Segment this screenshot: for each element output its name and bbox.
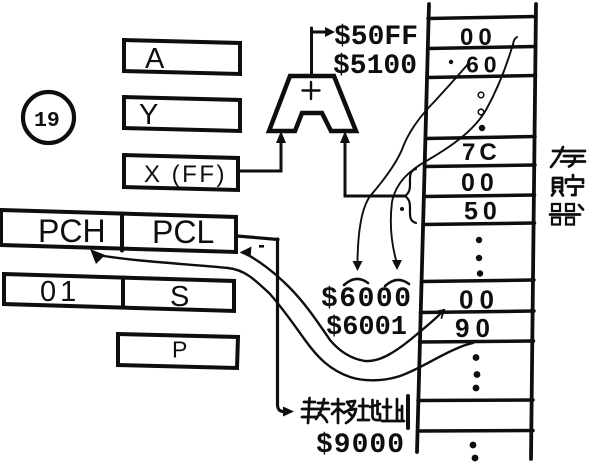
ALU adder symbol bbox=[269, 76, 356, 131]
svg-text:19: 19 bbox=[34, 109, 60, 133]
svg-text:P: P bbox=[172, 337, 187, 363]
curve from memory to $6000 pointer (right arc) bbox=[391, 37, 517, 260]
svg-text:60: 60 bbox=[466, 52, 502, 78]
plus sign inside ALU bbox=[303, 82, 320, 99]
ellipsis dots upper bbox=[478, 92, 484, 98]
svg-text:$6001: $6001 bbox=[326, 313, 407, 343]
register Y box bbox=[124, 97, 240, 131]
svg-text:00: 00 bbox=[459, 285, 500, 315]
svg-text:50: 50 bbox=[464, 198, 502, 226]
wire ALU output up then right bbox=[312, 28, 327, 76]
贮 bbox=[552, 178, 563, 196]
址 bbox=[382, 399, 404, 421]
svg-text:PCH: PCH bbox=[38, 213, 106, 249]
存 bbox=[551, 147, 585, 167]
svg-text:Y: Y bbox=[139, 99, 158, 131]
trailing vertical bar bbox=[406, 396, 410, 428]
ellipsis dots bottom bbox=[470, 442, 477, 449]
circle label 19 bbox=[23, 92, 74, 143]
地 bbox=[358, 399, 380, 420]
arrowhead at PCH bbox=[90, 249, 105, 264]
arrowhead to transfer address label bbox=[283, 407, 294, 417]
register P box bbox=[118, 334, 238, 368]
svg-text:7C: 7C bbox=[462, 139, 501, 166]
brace grouping memory cells bbox=[405, 169, 416, 223]
svg-text:90: 90 bbox=[455, 313, 496, 343]
wire brace to ALU right input bbox=[345, 140, 404, 196]
svg-text:$50FF: $50FF bbox=[334, 22, 418, 53]
noise dot near brace bbox=[400, 207, 404, 211]
label 存贮器 (hand drawn strokes) bbox=[550, 147, 585, 225]
label 转移地址 (hand drawn strokes) bbox=[302, 396, 408, 428]
svg-text:01: 01 bbox=[40, 276, 80, 308]
移 bbox=[332, 399, 356, 423]
ellipsis dots middle bbox=[476, 237, 482, 243]
器 bbox=[552, 204, 574, 211]
register pair PCH/PCL box bbox=[1, 210, 236, 252]
svg-text:A: A bbox=[145, 43, 165, 75]
svg-text:$5100: $5100 bbox=[333, 51, 417, 82]
wire X register to ALU left input bbox=[238, 140, 281, 171]
register X box bbox=[124, 155, 238, 190]
svg-text:$9000: $9000 bbox=[316, 430, 405, 461]
arrowhead to $50FF bbox=[325, 27, 335, 37]
memory cell divider lines bbox=[418, 17, 537, 432]
wire vertical down to transfer address bbox=[278, 239, 285, 412]
arrowhead into ALU right input bbox=[340, 131, 350, 143]
curve from memory 60 row to $6000 pointer (left arc) bbox=[358, 64, 469, 261]
register A box bbox=[124, 40, 240, 74]
svg-text:X (FF): X (FF) bbox=[144, 161, 227, 188]
memory column right edge bbox=[531, 4, 536, 459]
arc over first 00 of $6000 bbox=[344, 279, 368, 285]
svg-text:$6000: $6000 bbox=[321, 284, 413, 315]
register pair 01/S box bbox=[4, 274, 234, 311]
arrowhead at PCL bbox=[240, 247, 252, 258]
arrowhead into ALU left input bbox=[276, 131, 286, 143]
转 bbox=[302, 398, 329, 423]
curve PCH to memory 00/90 divider bbox=[97, 255, 473, 380]
svg-text:00: 00 bbox=[461, 169, 499, 197]
curve PCL to memory below-90 divider bbox=[243, 253, 444, 362]
memory column left edge bbox=[417, 4, 429, 452]
svg-text:00: 00 bbox=[460, 24, 497, 51]
arc over second 00 of $6000 bbox=[385, 280, 409, 286]
svg-text:S: S bbox=[170, 281, 189, 313]
svg-text:PCL: PCL bbox=[152, 214, 214, 250]
ellipsis dots lower bbox=[473, 354, 480, 361]
arrow tick at memory divider tip bbox=[437, 310, 445, 318]
wire PCL corner piece bbox=[237, 236, 278, 240]
